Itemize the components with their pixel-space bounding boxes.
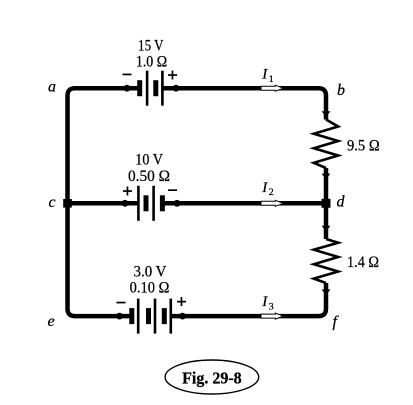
current arrow down above R2 [322, 226, 331, 232]
svg-text:Fig. 29-8: Fig. 29-8 [182, 369, 242, 388]
current arrow down below R2 [322, 289, 331, 295]
wire bottom rail right of battery (to f) [171, 283, 327, 316]
label 15 V [138, 37, 164, 54]
svg-text:0.10 Ω: 0.10 Ω [130, 280, 170, 297]
label B1 plus [168, 71, 177, 80]
label I3 [261, 294, 274, 313]
battery B3 3.0V [116, 299, 186, 334]
junction node d [322, 199, 331, 208]
current arrow down below R1 [322, 174, 331, 180]
current arrow I1 [261, 85, 283, 91]
battery B2 10V [122, 186, 181, 221]
current arrow I2 [261, 200, 283, 206]
wire top rail right of battery (to b) [162, 88, 326, 119]
label 1.0 ohm [136, 53, 167, 70]
figure label text Fig. 29-8 [182, 369, 242, 388]
node a [48, 78, 56, 95]
node b [337, 82, 345, 99]
svg-text:1.4 Ω: 1.4 Ω [347, 254, 379, 271]
label B2 minus [168, 189, 177, 191]
svg-text:I: I [261, 180, 268, 196]
svg-text:1.0 Ω: 1.0 Ω [136, 53, 167, 70]
node d [337, 194, 346, 211]
wire right side between d and R2 [324, 203, 329, 239]
resistor R1 9.5 ohm [314, 120, 338, 169]
wire middle rail right (battery to d) [162, 201, 326, 206]
svg-text:c: c [49, 194, 56, 211]
svg-text:b: b [337, 82, 345, 99]
wire middle rail left (c to battery) [68, 201, 139, 206]
node c [49, 194, 56, 211]
svg-text:e: e [48, 313, 55, 330]
label 3.0 V [134, 264, 167, 281]
figure label ellipse [165, 360, 259, 394]
svg-text:I: I [261, 294, 268, 310]
label B3 minus [117, 302, 126, 304]
svg-text:10 V: 10 V [135, 152, 163, 169]
label B2 plus [123, 187, 132, 196]
label 9.5 ohm [347, 137, 380, 154]
svg-text:9.5 Ω: 9.5 Ω [347, 137, 380, 154]
label I2 [261, 180, 274, 198]
svg-text:d: d [337, 194, 346, 211]
label B3 plus [177, 297, 186, 306]
svg-text:1: 1 [269, 74, 274, 85]
svg-text:2: 2 [269, 187, 274, 198]
battery B1 15V [124, 71, 180, 106]
current arrow down above R1 [322, 111, 331, 117]
node e [48, 313, 55, 330]
label B1 minus [123, 74, 132, 76]
node f [333, 314, 340, 331]
label 0.10 ohm [130, 280, 170, 297]
label I1 [261, 66, 274, 85]
wire right side between R1 and d [324, 168, 329, 203]
label 1.4 ohm [347, 254, 379, 271]
svg-text:0.50 Ω: 0.50 Ω [128, 168, 170, 185]
svg-text:a: a [48, 78, 56, 95]
junction node c [63, 199, 72, 208]
label 0.50 ohm [128, 168, 170, 185]
resistor R2 1.4 ohm [314, 239, 338, 283]
svg-text:3: 3 [269, 301, 274, 312]
current arrow I3 [261, 313, 283, 319]
svg-text:15 V: 15 V [138, 37, 164, 54]
label 10 V [135, 152, 163, 169]
wire left loop (a to e via left side) [68, 88, 139, 316]
svg-text:3.0 V: 3.0 V [134, 264, 167, 281]
svg-text:I: I [261, 66, 268, 82]
